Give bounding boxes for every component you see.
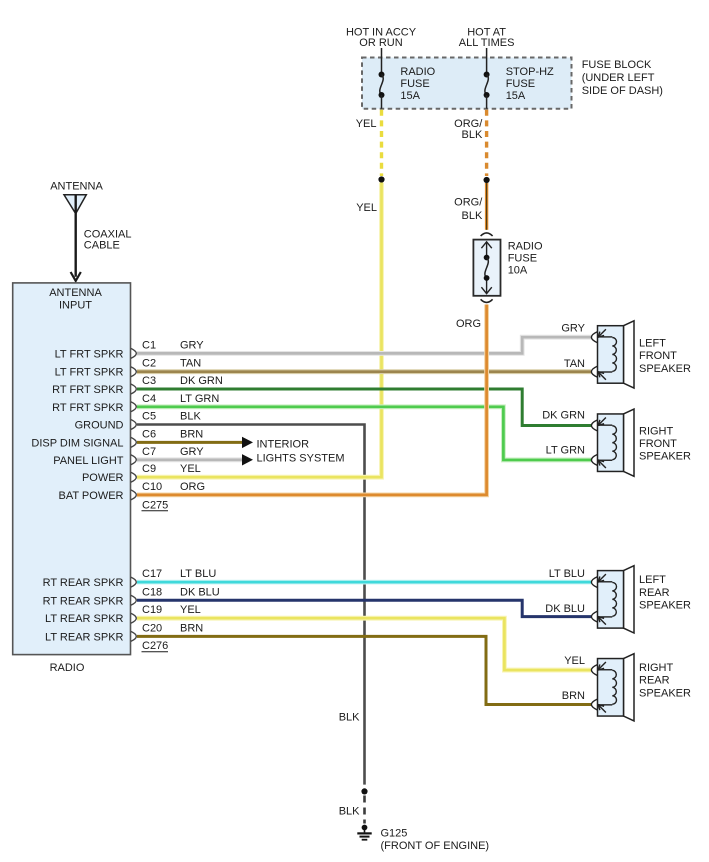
splice junction (YEL)	[378, 176, 384, 182]
svg-text:RT FRT SPKR: RT FRT SPKR	[52, 402, 123, 414]
svg-text:LT GRN: LT GRN	[546, 444, 585, 456]
label: FUSE BLOCK (UNDER LEFT SIDE OF DASH)	[582, 59, 663, 97]
svg-text:C6: C6	[142, 428, 156, 440]
svg-text:BRN: BRN	[180, 428, 203, 440]
svg-text:SPEAKER: SPEAKER	[639, 451, 691, 463]
wire BLK C5 ground wire down to G125	[137, 425, 365, 785]
svg-text:C275: C275	[142, 499, 168, 511]
svg-text:LEFT: LEFT	[639, 574, 666, 586]
wire LT BLU C17 to left rear speaker +	[137, 580, 591, 585]
svg-text:FUSE: FUSE	[400, 78, 429, 90]
fuse block (dashed box, under left side of dash)	[362, 58, 572, 109]
svg-text:RADIO: RADIO	[508, 241, 543, 253]
wire YEL C19 to right rear speaker +	[137, 618, 591, 670]
svg-text:(FRONT OF ENGINE): (FRONT OF ENGINE)	[381, 840, 490, 852]
svg-text:ALL TIMES: ALL TIMES	[459, 37, 515, 49]
svg-text:LEFT: LEFT	[639, 337, 666, 349]
wire YEL dashed (fuse block to splice)	[380, 110, 383, 176]
svg-text:C17: C17	[142, 568, 162, 580]
svg-text:SPEAKER: SPEAKER	[639, 600, 691, 612]
svg-text:LT REAR SPKR: LT REAR SPKR	[45, 613, 124, 625]
svg-text:YEL: YEL	[180, 463, 201, 475]
wire BRN C20 to right rear speaker -	[137, 636, 591, 704]
svg-text:BLK: BLK	[339, 711, 360, 723]
svg-text:OR RUN: OR RUN	[359, 37, 402, 49]
svg-text:BLK: BLK	[462, 129, 483, 141]
label: LEFT FRONT SPEAKER	[639, 337, 691, 374]
node label: HOT AT ALL TIMES	[459, 27, 515, 50]
svg-text:RIGHT: RIGHT	[639, 662, 674, 674]
svg-text:BAT POWER: BAT POWER	[59, 490, 124, 502]
svg-text:FUSE: FUSE	[506, 78, 535, 90]
radio unit box (ANTENNA INPUT / RADIO)	[13, 283, 131, 674]
pin C9 (POWER)	[82, 463, 201, 484]
svg-text:ANTENNA: ANTENNA	[50, 181, 103, 193]
svg-text:LIGHTS SYSTEM: LIGHTS SYSTEM	[257, 452, 345, 464]
svg-text:C9: C9	[142, 463, 156, 475]
svg-text:BLK: BLK	[339, 805, 360, 817]
svg-text:FRONT: FRONT	[639, 350, 677, 362]
svg-text:C276: C276	[142, 640, 168, 652]
value label: RADIO FUSE 15A	[400, 66, 435, 102]
svg-text:LT BLU: LT BLU	[180, 568, 216, 580]
svg-text:RT REAR SPKR: RT REAR SPKR	[43, 595, 124, 607]
label: RIGHT FRONT SPEAKER	[639, 425, 691, 462]
svg-text:LT FRT SPKR: LT FRT SPKR	[55, 367, 124, 379]
speaker RIGHT FRONT SPEAKER	[591, 409, 634, 476]
svg-text:RADIO: RADIO	[50, 662, 85, 674]
wire DK BLU C18 to left rear speaker -	[137, 600, 591, 616]
wire ORG in-line fuse to radio pin C10	[137, 305, 487, 495]
speaker LEFT REAR SPEAKER	[591, 566, 634, 633]
pin C10 (BAT POWER)	[59, 481, 206, 502]
wire BRN C6 to interior lights system	[137, 441, 242, 444]
value label: RADIO FUSE 10A	[508, 241, 543, 277]
label: RIGHT REAR SPEAKER	[639, 662, 691, 699]
wire ORG/BLK splice to in-line fuse	[485, 183, 488, 230]
fuse STOP-HZ FUSE 15A (with feed wire and terminals)	[484, 48, 490, 109]
svg-text:15A: 15A	[400, 90, 420, 102]
svg-text:RT FRT SPKR: RT FRT SPKR	[52, 384, 123, 396]
wire LT GRN C4 to right front speaker -	[137, 407, 591, 460]
in-line fuse RADIO FUSE 10A (connector arcs, holder box, element)	[473, 233, 500, 303]
svg-text:YEL: YEL	[180, 604, 201, 616]
node label: HOT IN ACCY OR RUN	[346, 27, 417, 50]
svg-text:BLK: BLK	[180, 411, 201, 423]
svg-text:REAR: REAR	[639, 587, 670, 599]
svg-text:SPEAKER: SPEAKER	[639, 363, 691, 375]
svg-text:BRN: BRN	[180, 622, 203, 634]
wire GRY C7 to interior lights system	[137, 457, 242, 462]
connector label C276	[142, 640, 169, 652]
wire YEL splice to radio pin C9	[137, 183, 382, 478]
svg-text:C5: C5	[142, 411, 156, 423]
svg-text:RIGHT: RIGHT	[639, 425, 674, 437]
svg-text:REAR: REAR	[639, 675, 670, 687]
svg-text:DK GRN: DK GRN	[542, 410, 585, 422]
wire TAN C2 to left front speaker -	[137, 369, 591, 374]
svg-text:LT REAR SPKR: LT REAR SPKR	[45, 631, 124, 643]
pin C4 (RT FRT SPKR)	[52, 393, 219, 414]
svg-text:C3: C3	[142, 375, 156, 387]
svg-text:SIDE OF DASH): SIDE OF DASH)	[582, 85, 663, 97]
svg-text:DK GRN: DK GRN	[180, 375, 223, 387]
svg-text:GRY: GRY	[561, 323, 585, 335]
pin C2 (LT FRT SPKR)	[55, 358, 202, 379]
svg-text:C10: C10	[142, 481, 162, 493]
pin C6 (DISP DIM SIGNAL)	[31, 428, 203, 449]
label: COAXIAL CABLE	[84, 228, 132, 251]
svg-text:YEL: YEL	[356, 202, 377, 214]
svg-text:DK BLU: DK BLU	[180, 586, 220, 598]
svg-text:ANTENNA: ANTENNA	[49, 287, 102, 299]
svg-text:C4: C4	[142, 393, 156, 405]
fuse RADIO FUSE 15A (with feed wire and terminals)	[379, 48, 385, 109]
ground G125 symbol	[357, 825, 371, 840]
svg-text:10A: 10A	[508, 265, 528, 277]
splice junction (ORG/BLK)	[484, 177, 490, 183]
svg-text:DISP DIM SIGNAL: DISP DIM SIGNAL	[31, 437, 123, 449]
arrow: to interior lights system (GRY)	[242, 454, 253, 465]
label ORG/BLK (solid segment)	[454, 196, 483, 221]
svg-text:TAN: TAN	[180, 358, 201, 370]
svg-text:C19: C19	[142, 604, 162, 616]
svg-text:LT FRT SPKR: LT FRT SPKR	[55, 348, 124, 360]
svg-text:ORG/: ORG/	[454, 196, 483, 208]
svg-text:INTERIOR: INTERIOR	[257, 438, 310, 450]
svg-text:ORG: ORG	[180, 481, 205, 493]
wire GRY C1 to left front speaker +	[137, 337, 591, 353]
label: INTERIOR LIGHTS SYSTEM	[257, 438, 345, 464]
arrow: to interior lights system (BRN)	[242, 437, 253, 448]
svg-text:GRY: GRY	[180, 446, 204, 458]
pin C7 (PANEL LIGHT)	[53, 446, 204, 467]
svg-text:C7: C7	[142, 446, 156, 458]
svg-text:YEL: YEL	[356, 118, 377, 130]
svg-text:C1: C1	[142, 339, 156, 351]
svg-text:CABLE: CABLE	[84, 239, 120, 251]
connector label C275	[142, 499, 169, 511]
wire: coaxial cable (antenna to radio, with arrow)	[71, 195, 81, 281]
svg-text:BLK: BLK	[462, 210, 483, 222]
svg-text:DK BLU: DK BLU	[545, 603, 585, 615]
svg-text:RT REAR SPKR: RT REAR SPKR	[43, 577, 124, 589]
pin C5 (GROUND)	[75, 411, 202, 432]
svg-text:FUSE BLOCK: FUSE BLOCK	[582, 59, 652, 71]
svg-text:POWER: POWER	[82, 472, 124, 484]
pin C3 (RT FRT SPKR)	[52, 375, 223, 396]
wire ORG/BLK dashed (fuse block to splice)	[485, 110, 488, 176]
svg-text:INPUT: INPUT	[59, 299, 92, 311]
svg-text:RADIO: RADIO	[400, 66, 435, 78]
svg-text:FRONT: FRONT	[639, 438, 677, 450]
svg-text:(UNDER LEFT: (UNDER LEFT	[582, 72, 655, 84]
svg-text:PANEL LIGHT: PANEL LIGHT	[53, 455, 124, 467]
svg-text:G125: G125	[381, 828, 408, 840]
pin C19 (LT REAR SPKR)	[45, 604, 201, 625]
speaker RIGHT REAR SPEAKER	[591, 654, 634, 721]
wire DK GRN C3 to right front speaker +	[137, 389, 591, 425]
pin C18 (RT REAR SPKR)	[43, 586, 220, 607]
pin C20 (LT REAR SPKR)	[45, 622, 203, 643]
svg-text:SPEAKER: SPEAKER	[639, 687, 691, 699]
value label: STOP-HZ FUSE 15A	[506, 66, 554, 102]
svg-text:LT GRN: LT GRN	[180, 393, 219, 405]
svg-text:C2: C2	[142, 358, 156, 370]
svg-text:C18: C18	[142, 586, 162, 598]
svg-text:GRY: GRY	[180, 339, 204, 351]
svg-text:LT BLU: LT BLU	[549, 568, 585, 580]
label ORG/BLK (dashed segment)	[454, 118, 483, 141]
pin C17 (RT REAR SPKR)	[43, 568, 217, 589]
svg-text:YEL: YEL	[564, 655, 585, 667]
svg-text:BRN: BRN	[562, 690, 585, 702]
wire BLK dashed to ground	[363, 796, 366, 824]
svg-text:STOP-HZ: STOP-HZ	[506, 66, 554, 78]
label: G125 (FRONT OF ENGINE)	[381, 828, 490, 852]
splice junction (BLK)	[361, 788, 367, 794]
svg-text:15A: 15A	[506, 90, 526, 102]
label: LEFT REAR SPEAKER	[639, 574, 691, 611]
svg-text:TAN: TAN	[564, 358, 585, 370]
svg-text:C20: C20	[142, 622, 162, 634]
svg-text:FUSE: FUSE	[508, 253, 537, 265]
svg-text:GROUND: GROUND	[75, 420, 124, 432]
pin C1 (LT FRT SPKR)	[55, 339, 205, 360]
antenna symbol	[50, 181, 103, 214]
svg-text:ORG: ORG	[456, 318, 481, 330]
speaker LEFT FRONT SPEAKER	[591, 321, 634, 388]
